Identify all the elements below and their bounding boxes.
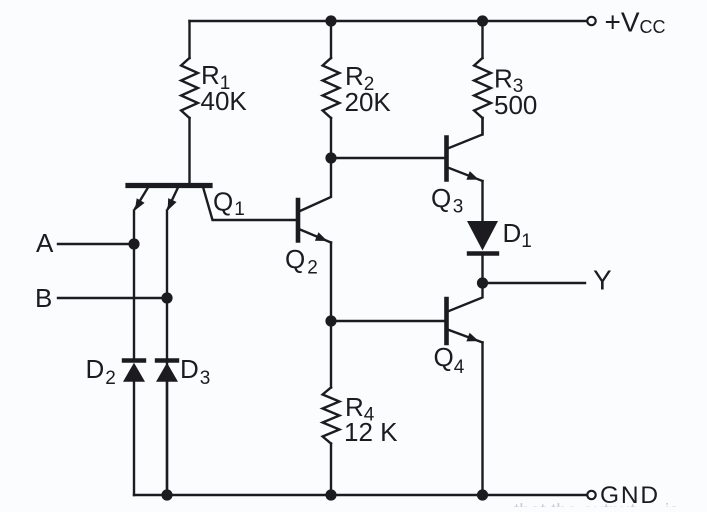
svg-text:D3: D3	[180, 354, 210, 389]
resistor R4 12K	[323, 321, 340, 495]
wire: Q4 emitter to ground rail	[481, 343, 483, 496]
svg-text:Q1: Q1	[213, 187, 245, 221]
svg-text:Q3: Q3	[431, 183, 463, 218]
svg-text:Q4: Q4	[434, 342, 465, 378]
transistor Q2 base bar	[296, 200, 301, 241]
svg-text:20K: 20K	[345, 87, 392, 117]
Q3 collector	[449, 118, 483, 148]
diode D2	[123, 361, 145, 496]
svg-text:that the output: that the output	[514, 501, 636, 507]
Q3 emitter	[449, 168, 483, 181]
Q4 collector	[449, 283, 483, 311]
resistor R1 40K	[181, 21, 198, 184]
junction: ground rail / Q4 emitter	[477, 489, 488, 500]
transistor Q1 multi-emitter base bar	[128, 183, 210, 188]
svg-text:B: B	[35, 283, 52, 313]
svg-text:+VCC: +VCC	[605, 7, 666, 38]
wire: Q2 emitter column to node	[330, 243, 332, 322]
svg-text:A: A	[36, 228, 54, 258]
junction: top rail / R2	[325, 15, 336, 26]
junction: top rail / R3	[477, 15, 488, 26]
terminal GND open circle	[587, 491, 595, 499]
terminal +VCC open circle	[587, 17, 595, 25]
resistor R3 500	[474, 21, 491, 135]
svg-text:40K: 40K	[201, 86, 248, 116]
resistor R2 20K	[323, 21, 340, 158]
Q4 emitter	[449, 330, 483, 343]
junction: ground rail / D3 column	[161, 489, 172, 500]
wire: right input column (B / D3)	[166, 211, 168, 496]
wire: input A lead	[58, 243, 134, 245]
wire: Q3 emitter to D1	[481, 181, 483, 221]
diode D1	[467, 221, 498, 283]
svg-text:Y: Y	[593, 265, 612, 296]
wire: top VCC rail	[190, 20, 588, 22]
transistor Q3 base bar	[444, 138, 449, 180]
wire: input B lead	[58, 297, 167, 299]
svg-text:D1: D1	[503, 218, 532, 252]
svg-text:12 K: 12 K	[344, 417, 398, 447]
junction: R2 bottom / Q2 collector / Q3 base	[325, 152, 336, 163]
svg-text:D2: D2	[86, 354, 116, 389]
wire: left input column (A / D2)	[133, 211, 135, 359]
wire: node to Q4 base	[331, 320, 444, 322]
diode D3	[156, 361, 178, 496]
Q2 collector	[300, 158, 331, 211]
junction: node B	[161, 292, 172, 303]
wire: node to Q3 base	[331, 157, 444, 159]
svg-text:Q2: Q2	[285, 244, 318, 279]
transistor Q4 base bar	[444, 299, 449, 343]
Q1 emitter 1 (input A side)	[135, 188, 148, 211]
junction: output node Y	[477, 277, 488, 288]
Q2 emitter	[300, 230, 331, 243]
wire: Q1 collector to Q2 base	[203, 187, 296, 220]
wire: output Y lead	[483, 282, 586, 284]
junction: Q2 emitter / R4 / Q4 base	[325, 315, 336, 326]
wire: bottom ground rail	[134, 494, 587, 496]
junction: node A	[128, 238, 139, 249]
svg-text:is: is	[665, 501, 679, 507]
Q1 emitter 2 (input B side)	[168, 188, 178, 211]
svg-text:500: 500	[494, 90, 537, 120]
junction: ground rail / R4	[325, 489, 336, 500]
